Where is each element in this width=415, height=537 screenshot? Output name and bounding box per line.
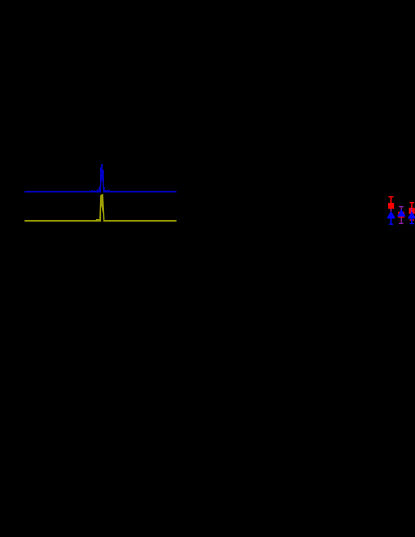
group3 purple error line over square bbox=[411, 208, 413, 212]
group3 red upper error cap bbox=[410, 202, 415, 204]
group3 red upper error line bbox=[411, 203, 413, 209]
group3 red lower error cap bbox=[410, 219, 415, 221]
group1 blue triangle marker bbox=[387, 212, 395, 219]
olive trace baseline bbox=[25, 220, 177, 222]
group1 purple error line bbox=[390, 209, 392, 213]
group1 red upper error line bbox=[390, 197, 392, 203]
group3 blue triangle marker bbox=[408, 212, 415, 219]
olive trace peak (filled spike) bbox=[99, 194, 104, 221]
group3 red square marker bbox=[409, 208, 415, 214]
group2 red square marker bbox=[398, 212, 404, 218]
group3 blue lower error cap bbox=[410, 223, 414, 225]
group1 red square marker bbox=[388, 203, 394, 209]
blue trace peak with noise (filled histogram spike) bbox=[91, 164, 111, 193]
group3 blue lower error line bbox=[411, 219, 413, 224]
group2 purple error bar with caps bbox=[399, 206, 404, 208]
blue peak interior dark slit bbox=[101, 181, 103, 193]
group1 blue lower error cap bbox=[389, 223, 393, 225]
group1 red upper error cap bbox=[389, 196, 394, 198]
blue trace baseline bbox=[25, 191, 177, 193]
group2 blue triangle marker bbox=[397, 210, 405, 217]
olive peak interior dark slit bbox=[101, 207, 103, 222]
group1 blue lower error line bbox=[390, 218, 392, 224]
olive trace left shoulder step bbox=[96, 219, 99, 220]
